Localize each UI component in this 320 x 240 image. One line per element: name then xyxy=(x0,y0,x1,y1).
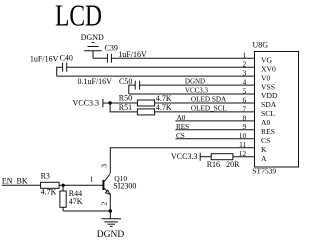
svg-text:XV0: XV0 xyxy=(261,64,276,73)
svg-text:A0: A0 xyxy=(261,118,270,127)
connector U8G xyxy=(252,41,298,176)
capacitor C40 xyxy=(60,53,73,71)
svg-text:SDA: SDA xyxy=(261,100,277,109)
svg-text:CS: CS xyxy=(176,132,185,140)
resistor R51 xyxy=(119,103,155,115)
svg-text:R50: R50 xyxy=(119,93,132,102)
svg-text:4.7K: 4.7K xyxy=(41,188,57,197)
wire C50 left lead xyxy=(129,85,135,94)
wire net DGND to pin 4 xyxy=(140,84,255,86)
pin numbers 1-12 xyxy=(239,51,247,159)
resistor R50 xyxy=(119,93,155,106)
svg-text:4.7K: 4.7K xyxy=(156,103,172,112)
wire net CS to pin 10 xyxy=(175,138,254,140)
svg-text:DGND: DGND xyxy=(81,33,104,42)
wire ground to C39 xyxy=(93,57,107,59)
svg-text:1uF/16V: 1uF/16V xyxy=(118,50,147,59)
svg-text:U8G: U8G xyxy=(253,41,269,50)
svg-text:1uF/16V: 1uF/16V xyxy=(30,55,59,64)
svg-text:SI2300: SI2300 xyxy=(113,182,136,191)
capacitor C50 xyxy=(119,77,140,89)
svg-text:C40: C40 xyxy=(60,53,73,62)
svg-text:VG: VG xyxy=(261,55,272,64)
wire net A0 to pin 8 xyxy=(175,120,254,122)
wire net K to pin 11 xyxy=(110,148,254,173)
svg-text:R3: R3 xyxy=(41,172,50,181)
svg-text:EN BK: EN BK xyxy=(2,176,28,185)
svg-text:VCC3.3: VCC3.3 xyxy=(73,98,99,107)
svg-text:7: 7 xyxy=(243,104,247,113)
svg-text:8: 8 xyxy=(243,113,247,122)
svg-text:RES: RES xyxy=(261,127,275,136)
ground DGND (bottom) xyxy=(97,211,125,240)
svg-text:OLED SDA: OLED SDA xyxy=(191,96,227,104)
svg-text:10: 10 xyxy=(239,131,247,140)
svg-text:CS: CS xyxy=(261,136,270,145)
svg-text:C39: C39 xyxy=(105,43,118,52)
svg-text:5: 5 xyxy=(243,86,247,95)
transistor Q10 xyxy=(90,164,137,211)
svg-text:R51: R51 xyxy=(119,103,132,112)
svg-text:VCC3.3: VCC3.3 xyxy=(185,87,209,95)
resistor R3 xyxy=(41,172,60,197)
svg-text:1: 1 xyxy=(243,51,247,60)
svg-text:20R: 20R xyxy=(226,160,240,169)
wire net V0 to pin 3 xyxy=(57,75,255,77)
svg-text:6: 6 xyxy=(243,95,247,104)
wire net OLED SDA to pin 6 xyxy=(155,102,255,104)
svg-text:R16: R16 xyxy=(207,160,220,169)
svg-text:VDD: VDD xyxy=(261,91,278,100)
power VCC3.3 (R16) xyxy=(171,152,211,161)
svg-text:A: A xyxy=(261,154,267,163)
resistor R44 xyxy=(60,185,83,211)
resistor R16 xyxy=(211,154,233,160)
svg-text:1: 1 xyxy=(90,174,94,183)
wire R44 to emitter xyxy=(63,210,110,212)
node junction emitter/R44/gnd xyxy=(109,209,112,212)
svg-text:A0: A0 xyxy=(177,114,186,122)
wire EN BK to R3 xyxy=(2,184,41,186)
wire VCC bus down to R51 xyxy=(110,103,137,112)
node junction VCC bus xyxy=(108,101,111,104)
svg-text:12: 12 xyxy=(239,149,247,158)
ground DGND (top) xyxy=(81,33,104,58)
capacitor C39 xyxy=(105,43,118,62)
svg-text:ST7539: ST7539 xyxy=(252,167,276,176)
svg-text:VCC3.3: VCC3.3 xyxy=(171,152,197,161)
svg-text:3: 3 xyxy=(243,69,247,78)
svg-text:K: K xyxy=(261,145,267,154)
svg-text:9: 9 xyxy=(243,122,247,131)
wire R16 to pin 12 xyxy=(233,156,255,158)
svg-text:LCD: LCD xyxy=(55,0,102,33)
svg-text:SCL: SCL xyxy=(261,109,275,118)
node junction R3/R44 xyxy=(61,184,64,187)
wire R3 to base xyxy=(59,184,103,186)
svg-text:2: 2 xyxy=(99,202,108,206)
wire net OLED_SCL to pin 7 xyxy=(155,111,255,113)
svg-text:OLED_SCL: OLED_SCL xyxy=(191,104,227,112)
power VCC3.3 (left) xyxy=(73,98,138,107)
wire net RES to pin 9 xyxy=(175,129,254,131)
svg-text:DGND: DGND xyxy=(185,78,205,86)
wire net VG to pin 1 xyxy=(111,57,254,59)
pin labels xyxy=(261,55,278,162)
svg-text:V0: V0 xyxy=(261,73,270,82)
svg-text:VSS: VSS xyxy=(261,82,275,91)
wire net VCC3.3 to pin 5 xyxy=(129,93,255,95)
svg-text:2: 2 xyxy=(243,60,247,69)
wire C40 left lead xyxy=(57,67,63,76)
svg-text:4.7K: 4.7K xyxy=(156,94,172,103)
svg-text:0.1uF/16V: 0.1uF/16V xyxy=(78,77,113,86)
svg-text:RES: RES xyxy=(176,123,189,131)
wire net XV0 to pin 2 xyxy=(67,66,255,68)
svg-text:4: 4 xyxy=(243,78,247,87)
svg-text:3: 3 xyxy=(99,164,108,168)
svg-text:11: 11 xyxy=(239,140,246,149)
svg-text:DGND: DGND xyxy=(97,230,125,240)
svg-text:47K: 47K xyxy=(69,197,83,206)
